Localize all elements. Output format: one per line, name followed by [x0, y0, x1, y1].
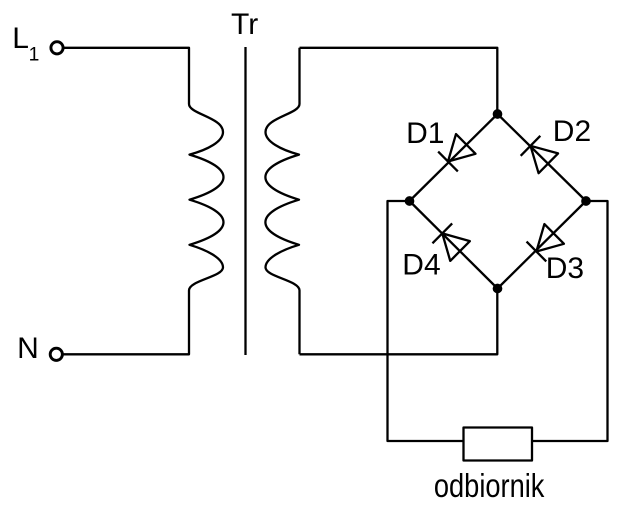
wire bridge edge top-left (node T to node L)	[410, 114, 498, 201]
svg-text:Tr: Tr	[231, 8, 258, 41]
wire secondary top to bridge top node	[300, 48, 498, 114]
wire bridge edge bottom-right (node B to node R)	[498, 201, 587, 289]
transformer secondary winding	[265, 48, 299, 355]
diode D2	[521, 136, 558, 173]
diode D1	[438, 134, 475, 171]
wire bridge right node to load	[532, 201, 608, 441]
wire bridge left node to load	[388, 201, 464, 441]
svg-text:D3: D3	[546, 252, 584, 285]
node T junction dot	[494, 110, 501, 117]
transformer Tr core	[244, 47, 246, 355]
node L junction dot	[406, 197, 413, 204]
svg-text:D1: D1	[406, 117, 444, 150]
node R junction dot	[582, 197, 589, 204]
load resistor odbiornik	[464, 428, 533, 461]
svg-text:1: 1	[29, 44, 40, 65]
node B junction dot	[494, 285, 501, 292]
svg-text:odbiornik: odbiornik	[434, 467, 545, 504]
svg-text:D4: D4	[402, 248, 440, 281]
wire primary top + primary winding + wire primary bottom	[63, 48, 223, 355]
terminal L1	[51, 42, 63, 54]
svg-text:L: L	[12, 22, 29, 55]
svg-text:N: N	[17, 332, 39, 365]
wire bridge edge bottom-left (node B to node L)	[410, 201, 498, 289]
svg-text:D2: D2	[553, 115, 591, 148]
wire secondary bottom to bridge bottom node	[300, 289, 498, 355]
diode D4	[432, 223, 469, 260]
wire bridge edge top-right (node T to node R)	[498, 114, 587, 201]
diode D3	[527, 224, 564, 261]
terminal N	[50, 348, 62, 360]
